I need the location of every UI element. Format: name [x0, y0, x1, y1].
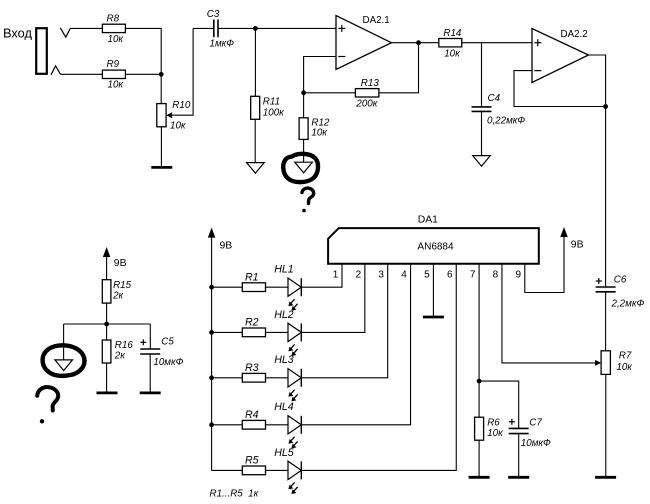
potentiometer R7 [595, 350, 632, 374]
wire inverting input DA2.1 [304, 57, 336, 93]
resistor R2 [242, 317, 265, 337]
svg-text:HL3: HL3 [274, 354, 294, 366]
resistor R15 [102, 280, 131, 303]
wire pin 8 [502, 264, 597, 363]
svg-text:9В: 9В [220, 241, 233, 252]
power arrow 9V left [208, 228, 232, 252]
wire [304, 92, 356, 94]
svg-text:8: 8 [493, 269, 499, 280]
input connector jack [36, 28, 47, 74]
svg-text:R5: R5 [245, 455, 259, 467]
wire inverting input DA2.2 feedback [514, 71, 606, 107]
wire pin 6 [301, 264, 456, 471]
wire pin 7 [478, 264, 480, 417]
ground under R16 [97, 391, 118, 394]
svg-text:9В: 9В [571, 240, 584, 251]
wire [125, 28, 161, 74]
LED HL2 [274, 309, 301, 356]
svg-text:200к: 200к [355, 99, 377, 110]
wire DA2.2 output [589, 55, 606, 286]
svg-text:10к: 10к [487, 428, 503, 439]
pin 3 label [378, 269, 384, 280]
wire [212, 377, 243, 379]
svg-text:C3: C3 [207, 9, 220, 20]
wire pin 9 [525, 237, 564, 293]
pin 7 label [470, 269, 476, 280]
svg-text:C4: C4 [488, 93, 501, 104]
svg-text:HL1: HL1 [274, 264, 293, 276]
node junction R8/R9 [159, 72, 164, 77]
capacitor C5 [140, 337, 183, 369]
LED HL5 [274, 447, 301, 494]
svg-text:R16: R16 [115, 340, 134, 351]
ground under R11 [247, 163, 265, 174]
capacitor C6 [596, 275, 645, 310]
svg-text:2,2мкФ: 2,2мкФ [611, 298, 645, 309]
wire [254, 28, 256, 96]
node junction feedback/output [603, 104, 608, 109]
svg-text:R2: R2 [245, 317, 259, 329]
svg-text:C7: C7 [529, 417, 542, 428]
svg-text:DA2.1: DA2.1 [363, 15, 390, 26]
node junction C3/R11 [253, 26, 258, 31]
wire [106, 363, 108, 392]
hand-drawn circle annotation around ground [283, 154, 318, 182]
jack sleeve contact [51, 66, 61, 75]
resistor R3 [242, 362, 265, 382]
wire [149, 324, 151, 349]
LED HL3 [274, 354, 301, 401]
svg-text:R8: R8 [107, 14, 120, 25]
node junction bus row 1 [209, 285, 214, 290]
svg-text:2к: 2к [114, 351, 125, 362]
wire [106, 324, 108, 340]
svg-text:R3: R3 [245, 362, 259, 374]
svg-text:R14: R14 [443, 28, 462, 39]
svg-text:10мкФ: 10мкФ [153, 357, 183, 368]
wire [462, 42, 532, 44]
svg-text:3: 3 [378, 269, 384, 280]
svg-text:Вход: Вход [3, 26, 32, 41]
resistor R8 [102, 14, 125, 45]
wire [149, 354, 151, 392]
svg-text:2к: 2к [112, 291, 123, 302]
svg-text:C5: C5 [161, 337, 174, 348]
wire [106, 256, 108, 280]
wire pin 2 [301, 264, 365, 333]
svg-text:R1: R1 [245, 271, 259, 283]
wire pin 1 [301, 264, 342, 287]
wire [218, 27, 336, 29]
svg-text:HL4: HL4 [274, 401, 294, 413]
pin 8 label [493, 269, 499, 280]
wire [212, 286, 243, 288]
wire [303, 93, 305, 118]
wire [63, 324, 65, 360]
svg-text:C6: C6 [614, 275, 627, 286]
hand-drawn question mark annotation [302, 188, 314, 212]
wire [391, 42, 438, 44]
svg-text:R10: R10 [172, 100, 191, 111]
wire [160, 127, 162, 166]
resistor R11 [251, 96, 284, 119]
node junction bus row 4 [209, 422, 214, 427]
svg-text:HL2: HL2 [274, 309, 294, 321]
svg-text:10к: 10к [108, 80, 124, 91]
wire [106, 303, 108, 324]
power arrow 9V bias [103, 247, 127, 269]
node junction bus row 2 [209, 330, 214, 335]
svg-text:1: 1 [333, 269, 339, 280]
wire [254, 119, 256, 162]
wire [125, 73, 161, 75]
wire [481, 111, 483, 155]
resistor R14 [439, 28, 462, 60]
svg-text:5: 5 [424, 269, 430, 280]
svg-text:7: 7 [470, 269, 476, 280]
svg-text:1мкФ: 1мкФ [210, 38, 235, 49]
potentiometer R10 [157, 28, 193, 131]
wire [70, 27, 102, 29]
svg-text:R4: R4 [245, 409, 259, 421]
capacitor C4 [472, 93, 526, 127]
svg-text:R1...R5 1к: R1...R5 1к [210, 488, 259, 499]
svg-text:DA1: DA1 [418, 214, 438, 225]
svg-text:10к: 10к [108, 34, 124, 45]
ground under R12 [295, 162, 313, 173]
resistor R4 [242, 409, 265, 429]
ground under R10 [151, 166, 172, 169]
wire [478, 440, 480, 476]
ground under C7 [508, 476, 529, 479]
svg-text:4: 4 [401, 269, 407, 280]
capacitor C7 [509, 417, 551, 448]
wire [193, 27, 214, 29]
resistor R16 [102, 340, 133, 363]
wire [212, 331, 243, 333]
resistor R5 [242, 455, 265, 475]
svg-text:10к: 10к [170, 121, 186, 132]
wire [61, 73, 103, 75]
LED HL1 [274, 264, 301, 311]
wire [518, 434, 520, 477]
wire [212, 469, 243, 471]
svg-text:R7: R7 [619, 350, 632, 361]
wire pin 4 [301, 264, 410, 425]
capacitor C3 [207, 9, 234, 49]
wire [266, 469, 289, 471]
svg-text:10к: 10к [444, 48, 460, 59]
IC DA1 AN6884 [328, 214, 539, 263]
LED HL4 [274, 401, 301, 448]
node junction DA2.1 output [416, 40, 421, 45]
hand-drawn question mark annotation 2 [37, 387, 58, 423]
wire [266, 286, 289, 288]
wire [160, 74, 162, 103]
svg-text:R15: R15 [113, 280, 132, 291]
svg-text:0,22мкФ: 0,22мкФ [487, 116, 525, 127]
svg-text:9: 9 [516, 269, 522, 280]
wire [266, 424, 289, 426]
node junction bus row 3 [209, 375, 214, 380]
svg-text:2: 2 [356, 269, 362, 280]
svg-text:AN6884: AN6884 [417, 242, 454, 253]
pin 2 label [356, 269, 362, 280]
svg-text:R6: R6 [487, 418, 500, 429]
wire [303, 139, 305, 162]
wire [266, 377, 289, 379]
svg-text:DA2.2: DA2.2 [561, 29, 588, 40]
resistor R12 [299, 118, 330, 140]
resistor R9 [102, 59, 125, 90]
hand-drawn circle annotation around ground 2 [43, 345, 85, 376]
ground under R7 [595, 476, 616, 479]
ground under R6 [469, 476, 490, 479]
power arrow 9V right [560, 227, 583, 251]
wire [605, 292, 607, 351]
svg-text:R13: R13 [361, 78, 380, 89]
resistor R1 [242, 271, 265, 291]
ground reference triangle [55, 360, 73, 371]
wire bias node row [64, 323, 151, 325]
pin 1 label [333, 269, 339, 280]
op-amp DA2.2 [532, 29, 589, 83]
label R1...R5 value [210, 488, 259, 499]
svg-text:10к: 10к [616, 362, 632, 373]
pin 9 label [516, 269, 522, 280]
ground under C4 [473, 156, 491, 167]
wire [212, 424, 243, 426]
op-amp DA2.1 [336, 15, 391, 69]
node junction pin7/C7 [477, 379, 482, 384]
svg-text:10мкФ: 10мкФ [521, 438, 551, 449]
wire pin 3 [301, 264, 387, 378]
svg-text:6: 6 [447, 269, 453, 280]
wire [605, 374, 607, 476]
svg-text:9В: 9В [114, 258, 127, 269]
ground pin 5 [423, 316, 444, 319]
svg-text:10к: 10к [311, 128, 327, 139]
pin 6 label [447, 269, 453, 280]
resistor R13 [355, 78, 379, 110]
input label [3, 26, 32, 41]
node junction R12/R13 [301, 90, 306, 95]
pin 4 label [401, 269, 407, 280]
wire pin 5 [432, 264, 434, 316]
wire [266, 331, 289, 333]
wire LED supply bus [211, 237, 213, 471]
svg-text:R9: R9 [107, 59, 120, 70]
svg-text:R11: R11 [263, 97, 280, 108]
node junction R15/R16 [104, 322, 109, 327]
jack tip contact [60, 28, 70, 37]
ground under C5 [140, 391, 161, 394]
wire [379, 43, 419, 93]
svg-text:100к: 100к [263, 107, 284, 118]
wire [479, 381, 519, 428]
wire [481, 43, 483, 107]
svg-text:HL5: HL5 [274, 447, 294, 459]
pin 5 label [424, 269, 430, 280]
resistor R6 [475, 417, 503, 440]
